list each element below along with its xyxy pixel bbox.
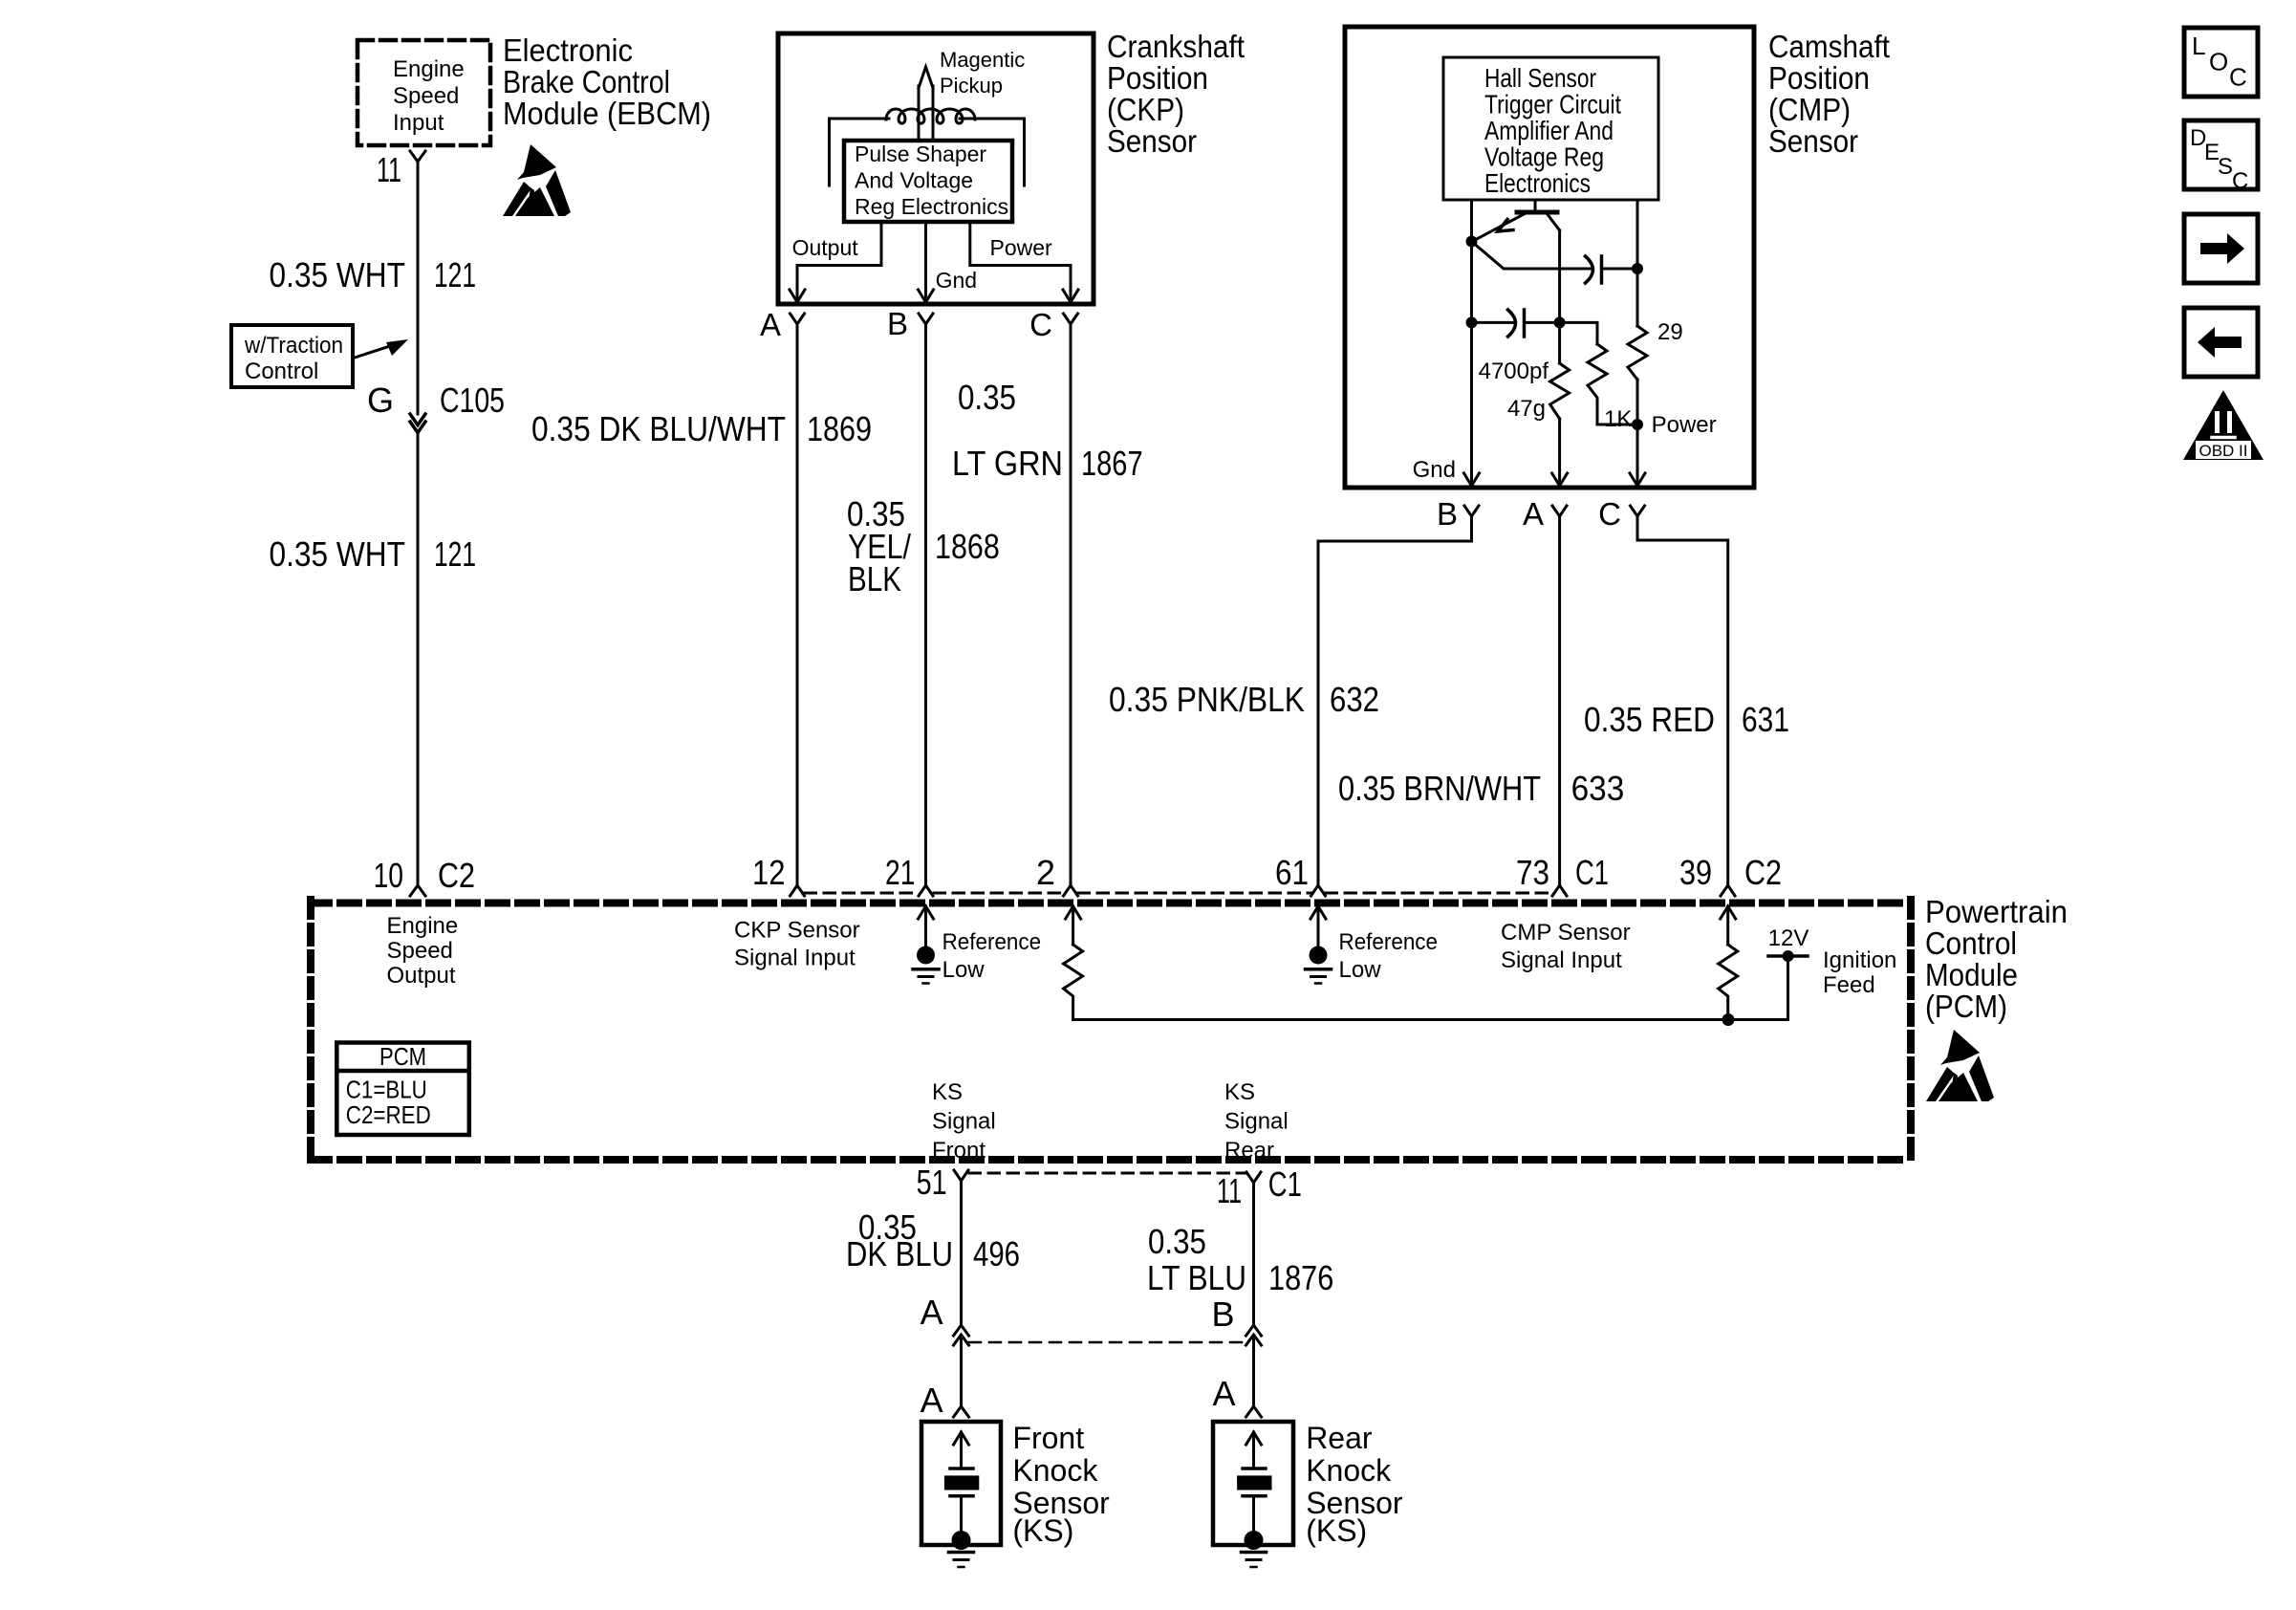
svg-text:G: G: [367, 381, 394, 420]
resistor under pin 39: [1719, 945, 1738, 1020]
svg-text:Trigger Circuit: Trigger Circuit: [1484, 90, 1621, 120]
svg-text:11: 11: [377, 150, 401, 189]
gnd to cap2 wire: [1472, 321, 1516, 324]
svg-text:Crankshaft: Crankshaft: [1107, 29, 1245, 64]
svg-text:(KS): (KS): [1012, 1513, 1073, 1548]
pickup housing thin box: [830, 119, 1025, 185]
inline connector C105 on wire 121: [410, 414, 425, 425]
svg-text:Amplifier And: Amplifier And: [1484, 116, 1614, 145]
svg-text:0.35: 0.35: [1148, 1222, 1206, 1261]
front KS capacitor bottom plate: [950, 1494, 973, 1498]
wire 633 (CMP A to PCM 73): [1558, 516, 1561, 885]
wire 121 lower segment: [417, 433, 420, 886]
CMP Gnd bottom arrow: [1464, 473, 1480, 486]
w/Traction Control callout box: [231, 325, 353, 387]
CMP sensor outer box: [1345, 27, 1754, 488]
LOC legend box: [2184, 28, 2258, 97]
svg-text:633: 633: [1571, 769, 1625, 808]
svg-text:0.35: 0.35: [958, 378, 1016, 417]
wire 121 upper segment: [417, 162, 420, 414]
CMP signal bottom arrow: [1552, 473, 1568, 486]
back arrow legend box: [2184, 308, 2258, 377]
rear KS ground symbol: [1242, 1551, 1267, 1555]
svg-text:Gnd: Gnd: [1413, 457, 1456, 483]
CMP signal internal wire (A): [1558, 230, 1561, 363]
svg-text:Reg Electronics: Reg Electronics: [855, 194, 1008, 219]
Reference Low at pin 21: arrow up: [919, 906, 934, 919]
svg-text:(CKP): (CKP): [1107, 92, 1184, 127]
pullup resistor under pin 39: arrow up: [1721, 906, 1736, 919]
svg-text:Ignition: Ignition: [1823, 947, 1896, 973]
node dot on signal wire at cap row: [1554, 316, 1566, 328]
svg-text:C1: C1: [1268, 1164, 1302, 1204]
svg-text:4700pf: 4700pf: [1479, 359, 1549, 384]
svg-text:Reference: Reference: [942, 929, 1042, 955]
svg-text:73: 73: [1516, 853, 1549, 892]
pin 21 inverted Y connector: [919, 885, 933, 896]
svg-text:Position: Position: [1107, 60, 1208, 96]
svg-text:0.35 PNK/BLK: 0.35 PNK/BLK: [1109, 680, 1305, 719]
ESD symbol at PCM: [1926, 1030, 1994, 1101]
Reference Low at pin 21: ground symbol: [913, 968, 939, 971]
svg-text:0.35 DK BLU/WHT: 0.35 DK BLU/WHT: [531, 409, 786, 448]
pin 51 Y connector: [954, 1170, 968, 1181]
svg-text:B: B: [887, 306, 908, 341]
DESC legend box: [2184, 120, 2258, 189]
svg-text:DK BLU: DK BLU: [846, 1234, 953, 1273]
svg-text:1K: 1K: [1604, 406, 1632, 432]
svg-text:BLK: BLK: [848, 559, 901, 598]
svg-text:A: A: [921, 1381, 943, 1420]
wire 1868 (CKP B to PCM 21): [924, 324, 927, 885]
svg-text:C: C: [2229, 63, 2247, 92]
svg-text:Signal: Signal: [1224, 1109, 1289, 1135]
front inline connector chevrons: [954, 1325, 969, 1336]
svg-text:Speed: Speed: [387, 938, 453, 964]
rear KS capacitor top plate: [1243, 1467, 1266, 1470]
node dot at transistor emitter junction: [1466, 236, 1478, 248]
magnetic pickup rod: [919, 67, 933, 141]
CMP power internal wire: [1636, 200, 1639, 326]
svg-text:And Voltage: And Voltage: [855, 168, 973, 193]
Power pin wire: [970, 222, 1071, 300]
svg-text:Camshaft: Camshaft: [1768, 29, 1890, 64]
transistor Q1 emitter diagonal with arrow: [1475, 213, 1526, 240]
Reference Low at pin 61: arrow up: [1310, 906, 1326, 919]
svg-text:0.35 WHT: 0.35 WHT: [270, 534, 406, 574]
resistor 29: [1628, 326, 1647, 380]
svg-text:PCM: PCM: [379, 1042, 426, 1071]
callout arrow to wire: [355, 344, 396, 358]
svg-text:12V: 12V: [1768, 925, 1809, 951]
svg-text:C: C: [2232, 168, 2248, 194]
CKP sensor outer box: [778, 33, 1094, 304]
Reference Low at pin 61: ground symbol: [1306, 968, 1332, 971]
svg-text:Electronics: Electronics: [1484, 168, 1591, 198]
node dot on power wire at cap1: [1632, 263, 1643, 274]
svg-text:Front: Front: [1012, 1421, 1084, 1455]
Output pin arrow: [790, 290, 805, 302]
CMP Gnd internal wire: [1470, 200, 1473, 483]
Pulse Shaper inner box: [844, 141, 1012, 222]
wire 1869 (CKP A to PCM 12): [796, 324, 799, 885]
wire 496 lower: [960, 1336, 963, 1406]
svg-text:Position: Position: [1768, 60, 1870, 96]
pin 73 inverted Y connector: [1552, 885, 1567, 896]
svg-text:Powertrain: Powertrain: [1925, 894, 2068, 929]
wire 496 (PCM 51 to front KS) upper: [960, 1181, 963, 1326]
rear KS ground dot: [1245, 1531, 1264, 1550]
resistor 1K: [1588, 344, 1637, 424]
svg-text:C105: C105: [440, 381, 505, 420]
svg-text:C2=RED: C2=RED: [346, 1100, 431, 1129]
CMP pin C Y connector: [1631, 506, 1645, 516]
EBCM Engine Speed Input dashed box: [357, 40, 490, 145]
svg-text:0.35 WHT: 0.35 WHT: [270, 255, 406, 294]
12V terminal bar: [1768, 954, 1808, 958]
svg-text:496: 496: [973, 1234, 1020, 1273]
wire 1876 (PCM 11 to rear KS) upper: [1252, 1183, 1255, 1326]
12V junction dot: [1783, 950, 1794, 962]
svg-text:Control: Control: [1925, 925, 2017, 961]
svg-text:C: C: [1598, 496, 1621, 532]
OBD II triangle: [2183, 390, 2264, 460]
svg-text:C: C: [1029, 307, 1052, 342]
svg-text:A: A: [760, 307, 781, 342]
internal bus wire to 12V: [1073, 1018, 1788, 1021]
CMP pin A Y connector: [1552, 506, 1567, 516]
svg-text:Input: Input: [393, 110, 444, 136]
svg-text:21: 21: [885, 853, 915, 892]
svg-text:Control: Control: [245, 359, 318, 384]
svg-text:CMP Sensor: CMP Sensor: [1501, 920, 1631, 946]
front KS element: [944, 1475, 979, 1490]
capacitor C2 4700pf: [1508, 310, 1516, 337]
svg-text:C2: C2: [1744, 853, 1782, 892]
svg-text:Pulse Shaper: Pulse Shaper: [855, 141, 986, 166]
svg-text:LT GRN: LT GRN: [952, 444, 1063, 483]
pin 10 inverted Y connector: [410, 885, 425, 896]
svg-text:(PCM): (PCM): [1925, 989, 2007, 1024]
svg-text:0.35 RED: 0.35 RED: [1584, 700, 1715, 739]
svg-text:B: B: [1211, 1295, 1234, 1334]
PCM connector legend box: [336, 1043, 469, 1136]
Hall Sensor inner box: [1443, 57, 1658, 200]
transistor Q1 collector stub: [1534, 200, 1537, 211]
emitter to cap1 wire: [1472, 242, 1593, 270]
svg-text:(CMP): (CMP): [1768, 92, 1851, 127]
svg-text:Gnd: Gnd: [936, 268, 977, 293]
node dot on Gnd wire at cap row: [1466, 316, 1478, 328]
svg-text:A: A: [921, 1293, 943, 1332]
svg-text:Reference: Reference: [1339, 929, 1439, 955]
svg-text:Rear: Rear: [1306, 1421, 1373, 1455]
svg-text:(KS): (KS): [1306, 1513, 1367, 1548]
svg-text:Module: Module: [1925, 957, 2018, 992]
svg-text:O: O: [2209, 48, 2228, 76]
svg-text:A: A: [1523, 496, 1544, 532]
resistor under pin 2: [1064, 945, 1083, 1020]
wire 631 (CMP C to PCM 39): [1637, 516, 1728, 885]
svg-text:1876: 1876: [1268, 1258, 1333, 1297]
Reference Low at pin 21: ground dot: [917, 946, 935, 965]
Gnd pin arrow: [919, 290, 934, 302]
svg-text:121: 121: [434, 534, 476, 574]
svg-text:Rear: Rear: [1224, 1138, 1274, 1164]
front KS ground dot: [952, 1531, 971, 1550]
cap1 to power wire: [1602, 268, 1638, 271]
rear KS capacitor bottom plate: [1243, 1494, 1266, 1498]
svg-text:Signal: Signal: [932, 1109, 996, 1135]
dashed connector line between knock sensor connectors: [969, 1341, 1245, 1344]
CMP pin B Y connector: [1464, 506, 1479, 516]
transistor Q1 base bar: [1517, 210, 1557, 215]
svg-text:Feed: Feed: [1823, 972, 1875, 998]
svg-text:Engine: Engine: [387, 913, 459, 939]
svg-text:1868: 1868: [935, 527, 1000, 566]
ESD symbol at EBCM: [503, 144, 571, 216]
svg-text:C2: C2: [438, 856, 475, 895]
svg-text:Sensor: Sensor: [1107, 123, 1197, 159]
svg-text:Pickup: Pickup: [940, 74, 1003, 98]
svg-text:B: B: [1437, 496, 1458, 532]
junction dot resistor39 to bus: [1722, 1013, 1735, 1026]
svg-text:Sensor: Sensor: [1768, 123, 1858, 159]
svg-text:29: 29: [1657, 319, 1683, 345]
svg-text:631: 631: [1742, 700, 1789, 739]
svg-text:OBD II: OBD II: [2199, 442, 2247, 460]
svg-text:Brake Control: Brake Control: [503, 64, 670, 99]
connector C1 thin dashed line along PCM top: [805, 892, 1552, 895]
svg-text:Knock: Knock: [1012, 1453, 1098, 1488]
svg-text:Power: Power: [990, 235, 1053, 260]
rear KS wire to ground: [1252, 1496, 1255, 1542]
cap2 to 1K wire: [1525, 322, 1598, 344]
capacitor C1: [1586, 256, 1593, 283]
svg-text:LT BLU: LT BLU: [1147, 1258, 1246, 1297]
CKP pin C Y connector: [1064, 314, 1078, 324]
PCM dashed box border: [311, 900, 1911, 1164]
svg-text:47g: 47g: [1507, 396, 1546, 422]
svg-text:61: 61: [1275, 853, 1309, 892]
pullup resistor under pin 2: arrow up: [1066, 906, 1081, 919]
svg-text:Magentic: Magentic: [940, 48, 1025, 72]
12V drop wire: [1787, 956, 1789, 1020]
rear KS element: [1237, 1475, 1271, 1490]
svg-text:10: 10: [374, 856, 403, 895]
pin 11 Y connector: [1246, 1172, 1261, 1183]
svg-text:A: A: [1212, 1374, 1235, 1413]
Output pin wire: [797, 222, 881, 300]
pin 39 inverted Y connector: [1721, 885, 1735, 896]
svg-text:Output: Output: [792, 235, 859, 260]
svg-text:121: 121: [434, 255, 476, 294]
CKP pin B Y connector: [919, 314, 933, 324]
front KS ground symbol: [949, 1551, 974, 1555]
svg-text:1867: 1867: [1081, 444, 1143, 483]
rear KS internal arrow up: [1246, 1432, 1262, 1445]
svg-text:Hall Sensor: Hall Sensor: [1484, 63, 1596, 93]
svg-text:CKP Sensor: CKP Sensor: [734, 918, 860, 944]
pin 12 inverted Y connector: [791, 885, 805, 896]
svg-text:51: 51: [917, 1163, 947, 1202]
svg-text:Low: Low: [1339, 957, 1382, 983]
wire 1876 lower: [1252, 1336, 1255, 1406]
node dot on power wire at Power terminal: [1632, 419, 1643, 430]
svg-text:12: 12: [752, 853, 786, 892]
svg-text:Signal Input: Signal Input: [734, 946, 856, 971]
svg-text:11: 11: [1217, 1171, 1242, 1210]
front KS internal arrow up: [954, 1432, 969, 1445]
forward arrow legend box: [2184, 214, 2258, 283]
Reference Low at pin 61: ground dot: [1310, 946, 1328, 965]
svg-text:0.35 BRN/WHT: 0.35 BRN/WHT: [1338, 769, 1541, 808]
svg-text:Module (EBCM): Module (EBCM): [503, 96, 711, 131]
svg-text:Signal Input: Signal Input: [1501, 947, 1622, 973]
svg-text:632: 632: [1330, 680, 1379, 719]
front KS wire to ground: [960, 1496, 963, 1542]
svg-text:S: S: [2218, 154, 2233, 180]
Rear Knock Sensor box: [1213, 1422, 1293, 1545]
svg-text:1869: 1869: [807, 409, 872, 448]
svg-text:Low: Low: [942, 957, 986, 983]
svg-text:C1=BLU: C1=BLU: [346, 1076, 427, 1104]
svg-text:KS: KS: [932, 1079, 963, 1105]
connector C1 thin dashed line along PCM bottom: [969, 1172, 1245, 1175]
wire 1867 (CKP C to PCM 2): [1070, 324, 1072, 885]
Power pin arrow: [1063, 290, 1078, 302]
front KS capacitor top plate: [950, 1467, 973, 1470]
pin 2 inverted Y connector: [1064, 885, 1078, 896]
transistor Q1 collector diagonal: [1547, 213, 1560, 230]
CKP pin A Y connector: [791, 314, 805, 324]
wire 632 (CMP B to PCM 61): [1318, 516, 1472, 885]
Gnd pin wire: [924, 222, 927, 300]
rear KS pin chevron: [1246, 1406, 1262, 1417]
Front Knock Sensor box: [921, 1422, 1001, 1545]
svg-text:C1: C1: [1575, 853, 1609, 892]
svg-text:2: 2: [1036, 853, 1055, 892]
svg-text:Engine: Engine: [393, 56, 465, 82]
svg-text:Output: Output: [387, 963, 456, 989]
svg-text:w/Traction: w/Traction: [244, 333, 343, 359]
svg-text:Knock: Knock: [1306, 1453, 1392, 1488]
svg-text:Front: Front: [932, 1138, 986, 1164]
svg-text:Electronic: Electronic: [503, 33, 633, 68]
pickup coil: [886, 109, 975, 123]
svg-text:39: 39: [1679, 853, 1712, 892]
pin 61 inverted Y connector: [1311, 885, 1326, 896]
resistor 47g: [1550, 363, 1570, 419]
pin 11 Y connector: [410, 151, 425, 162]
front KS pin chevron: [954, 1406, 969, 1417]
svg-text:KS: KS: [1224, 1079, 1255, 1105]
CMP power bottom arrow: [1630, 473, 1645, 486]
svg-text:L: L: [2192, 32, 2205, 60]
svg-text:Voltage Reg: Voltage Reg: [1484, 142, 1604, 172]
svg-text:Speed: Speed: [393, 83, 459, 109]
svg-text:Power: Power: [1652, 412, 1717, 438]
rear inline connector chevrons: [1246, 1325, 1262, 1336]
